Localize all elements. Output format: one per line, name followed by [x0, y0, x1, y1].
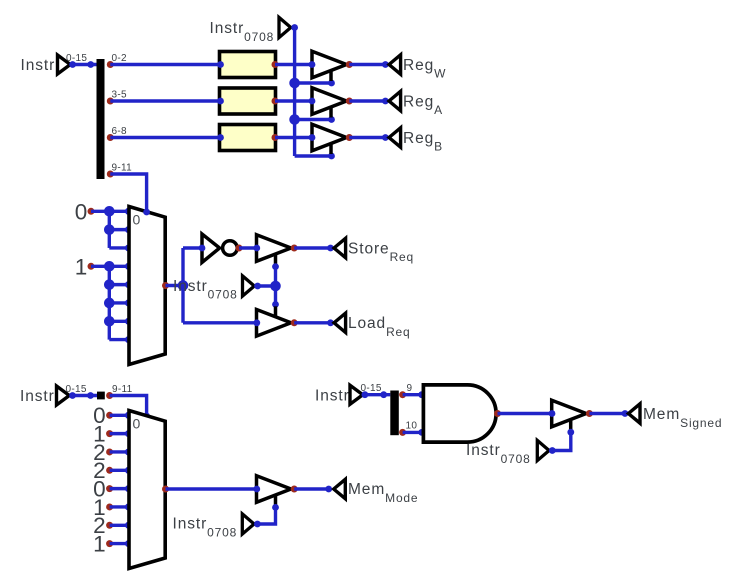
svg-text:Instr: Instr	[20, 388, 55, 405]
node splitter out 3-5	[107, 98, 114, 105]
svg-text:9-11: 9-11	[112, 384, 133, 395]
svg-text:RegB: RegB	[403, 130, 443, 154]
NOT gate G1	[202, 234, 220, 262]
node RegB pin port	[382, 134, 389, 141]
node MemMode pin port	[325, 486, 332, 493]
output pin MemMode	[334, 479, 346, 498]
node MUX1 select	[143, 209, 150, 216]
node constant 0 output	[88, 208, 95, 215]
node junction const1 row5	[104, 279, 115, 290]
node S3 out 10	[399, 429, 406, 436]
node buffer U3 input	[309, 134, 316, 141]
node buffer U2 output	[346, 98, 353, 105]
wire enable rail vertical	[274, 267, 277, 305]
wire U4 to StoreReq	[294, 246, 330, 249]
node MUX2 select	[143, 413, 150, 420]
wire tunnel to enable rail	[258, 284, 276, 287]
wire U6 to MemMode	[294, 487, 329, 490]
wire Instr to splitter S3	[363, 393, 391, 396]
node buffer U3 output	[346, 134, 353, 141]
wire 9-11 to MUX1 select	[110, 174, 146, 213]
wire 9-11 to MUX2 select	[110, 396, 147, 417]
svg-text:Instr0708: Instr0708	[210, 20, 275, 44]
node U4 input	[253, 245, 260, 252]
svg-text:10: 10	[406, 421, 418, 432]
wire bit9 to AND	[403, 393, 424, 396]
node U4 enable	[272, 263, 279, 270]
svg-text:0-15: 0-15	[66, 384, 87, 395]
svg-text:1: 1	[75, 255, 88, 280]
wire constant 0 fanout	[91, 210, 128, 213]
wire U5 to LoadReq	[294, 321, 330, 324]
multiplexer MUX1	[129, 207, 165, 365]
svg-text:RegA: RegA	[403, 93, 443, 117]
node splitter out 6-8	[107, 134, 114, 141]
svg-text:LoadReq: LoadReq	[348, 315, 411, 339]
svg-text:0-15: 0-15	[361, 383, 382, 394]
node MUX1 input pins 3-7	[125, 263, 132, 270]
wire extender X3 to buffer	[275, 136, 312, 139]
svg-text:9: 9	[407, 383, 413, 394]
wire buffer U3 to RegB	[349, 136, 385, 139]
node junction enable rail row1	[289, 78, 300, 89]
node RegA pin port	[382, 98, 389, 105]
node U6 output	[291, 486, 298, 493]
node junction const1 row7	[104, 316, 115, 327]
node buffer U2 enable port	[328, 116, 335, 123]
multiplexer MUX2	[129, 411, 165, 569]
wire 6-8 bus	[110, 136, 219, 139]
node pin port	[69, 392, 76, 399]
wire const to MUX2 in3	[110, 469, 128, 472]
node U7 input	[549, 410, 556, 417]
node junction const1 row6	[104, 298, 115, 309]
svg-text:Instr0708: Instr0708	[173, 516, 238, 540]
svg-text:Instr: Instr	[21, 57, 56, 74]
svg-text:Instr0708: Instr0708	[466, 442, 531, 466]
svg-text:StoreReq: StoreReq	[348, 240, 414, 264]
svg-text:0: 0	[133, 212, 142, 228]
node junction enable rail row2	[289, 114, 300, 125]
node AND input A	[418, 391, 425, 398]
node AND input B	[418, 429, 425, 436]
node NOT input	[199, 245, 206, 252]
svg-text:1: 1	[93, 531, 106, 556]
wire const to MUX2 in4	[110, 487, 128, 490]
node tunnel port (top)	[291, 24, 298, 31]
controlled buffer U3	[312, 124, 347, 151]
wire constant 1 fanout	[91, 265, 128, 268]
extender X1	[220, 52, 276, 78]
controlled buffer U2	[312, 88, 347, 115]
node splitter input	[87, 61, 94, 68]
node LoadReq pin port	[327, 319, 334, 326]
node junction const0 row2	[104, 224, 115, 235]
svg-text:0-15: 0-15	[66, 53, 87, 64]
node junction enable mid	[270, 281, 281, 292]
node tunnel port	[254, 521, 261, 528]
node MUX1 input pins 0-2	[125, 208, 132, 215]
wire AND to buffer U7	[498, 412, 553, 415]
controlled buffer U5 (Load)	[257, 310, 292, 337]
node junction const1 row4	[104, 261, 115, 272]
node U7 enable	[567, 429, 574, 436]
svg-text:0: 0	[133, 416, 142, 432]
svg-text:6-8: 6-8	[112, 126, 127, 137]
wire const to MUX2 in2	[110, 450, 128, 453]
svg-text:0: 0	[75, 200, 88, 225]
node splitter out 0-2	[107, 61, 114, 68]
node U6 enable	[272, 504, 279, 511]
node U6 input	[253, 486, 260, 493]
wire U7 to MemSigned	[589, 412, 625, 415]
svg-text:Instr: Instr	[315, 387, 350, 404]
node U7 output	[586, 410, 593, 417]
extender X3	[220, 125, 276, 151]
output pin LoadReq	[334, 313, 346, 332]
node buffer U1 input	[309, 61, 316, 68]
output pin RegB	[389, 128, 401, 147]
splitter S1 Instr[0-15]	[97, 59, 105, 179]
wire const to MUX2 in7	[110, 542, 128, 545]
wire MUX1 output to junction	[166, 284, 184, 287]
svg-text:0-2: 0-2	[112, 53, 127, 64]
node buffer U3 enable port	[328, 153, 335, 160]
node buffer U1 enable port	[328, 80, 335, 87]
node U4 output	[291, 245, 298, 252]
wire enable to buffer U2	[295, 118, 332, 121]
node RegW pin port	[382, 61, 389, 68]
wire NOT to Store buffer	[239, 246, 257, 249]
wire enable to buffer U3	[295, 154, 332, 157]
svg-text:RegW: RegW	[403, 57, 446, 81]
wire to Load buffer	[183, 321, 257, 324]
node S2 out 9-11	[106, 392, 113, 399]
node Instr pin port	[69, 61, 76, 68]
wire Store/Load rail	[181, 248, 184, 323]
node MUX1 output	[162, 282, 169, 289]
wire buffer U2 to RegA	[349, 99, 385, 102]
node splitter S2 input	[87, 392, 94, 399]
wire tunnel to U6 enable	[257, 507, 275, 524]
node U5 enable	[272, 301, 279, 308]
wire to NOT gate	[183, 246, 202, 249]
node S3 out 9	[399, 391, 406, 398]
node splitter S3 input	[380, 391, 387, 398]
wire bit10 to AND	[403, 431, 424, 434]
wire 3-5 bus	[110, 99, 219, 102]
node constant 1 output	[88, 263, 95, 270]
wire const to MUX2 in5	[110, 505, 128, 508]
wire Instr to splitter	[71, 63, 97, 66]
wire buffer U1 to RegW	[349, 63, 385, 66]
wire 0-2 bus	[110, 63, 219, 66]
svg-text:9-11: 9-11	[112, 163, 133, 174]
node NOT output	[236, 245, 243, 252]
splitter S2 Instr[9-11]	[97, 392, 105, 400]
controlled buffer U1	[312, 51, 347, 78]
node U5 output	[291, 319, 298, 326]
controlled buffer U4 (Store)	[257, 235, 292, 262]
wire tunnel to U7 enable	[552, 432, 571, 450]
wire const to MUX2 in0	[110, 414, 128, 417]
output pin RegA	[389, 91, 401, 110]
svg-text:MemMode: MemMode	[348, 481, 418, 505]
wire const to MUX2 in6	[110, 524, 128, 527]
svg-text:MemSigned: MemSigned	[643, 406, 722, 430]
wire enable to buffer U1	[295, 81, 332, 84]
output pin MemSigned	[628, 404, 640, 423]
extender X2	[220, 88, 276, 114]
node junction const0 row1	[104, 206, 115, 217]
wire const to MUX2 in1	[110, 432, 128, 435]
splitter S3 Instr[9,10]	[390, 391, 399, 436]
wire tunnel vertical (enable rail)	[293, 28, 296, 157]
node buffer U2 input	[309, 98, 316, 105]
output pin RegW	[389, 55, 401, 74]
node MemSigned pin port	[622, 410, 629, 417]
node pin port	[362, 391, 369, 398]
node tunnel port (middle)	[254, 283, 261, 290]
node StoreReq pin port	[327, 245, 334, 252]
node MUX2 output	[162, 486, 169, 493]
node tunnel port	[549, 447, 556, 454]
node AND output	[494, 410, 501, 417]
svg-text:3-5: 3-5	[112, 90, 127, 101]
controlled buffer U7 (MemSigned)	[552, 400, 587, 427]
wire extender X2 to buffer	[275, 99, 312, 102]
controlled buffer U6 (MemMode)	[257, 476, 292, 503]
output pin StoreReq	[334, 238, 346, 257]
node U5 input	[253, 319, 260, 326]
node splitter out 9-11	[107, 171, 114, 178]
node junction MUX1 out	[178, 280, 189, 291]
node buffer U1 output	[346, 61, 353, 68]
wire MUX2 to buffer U6	[166, 487, 257, 490]
AND gate G2	[423, 385, 496, 442]
wire extender X1 to buffer	[275, 63, 312, 66]
wire Instr to splitter S2	[70, 394, 98, 397]
